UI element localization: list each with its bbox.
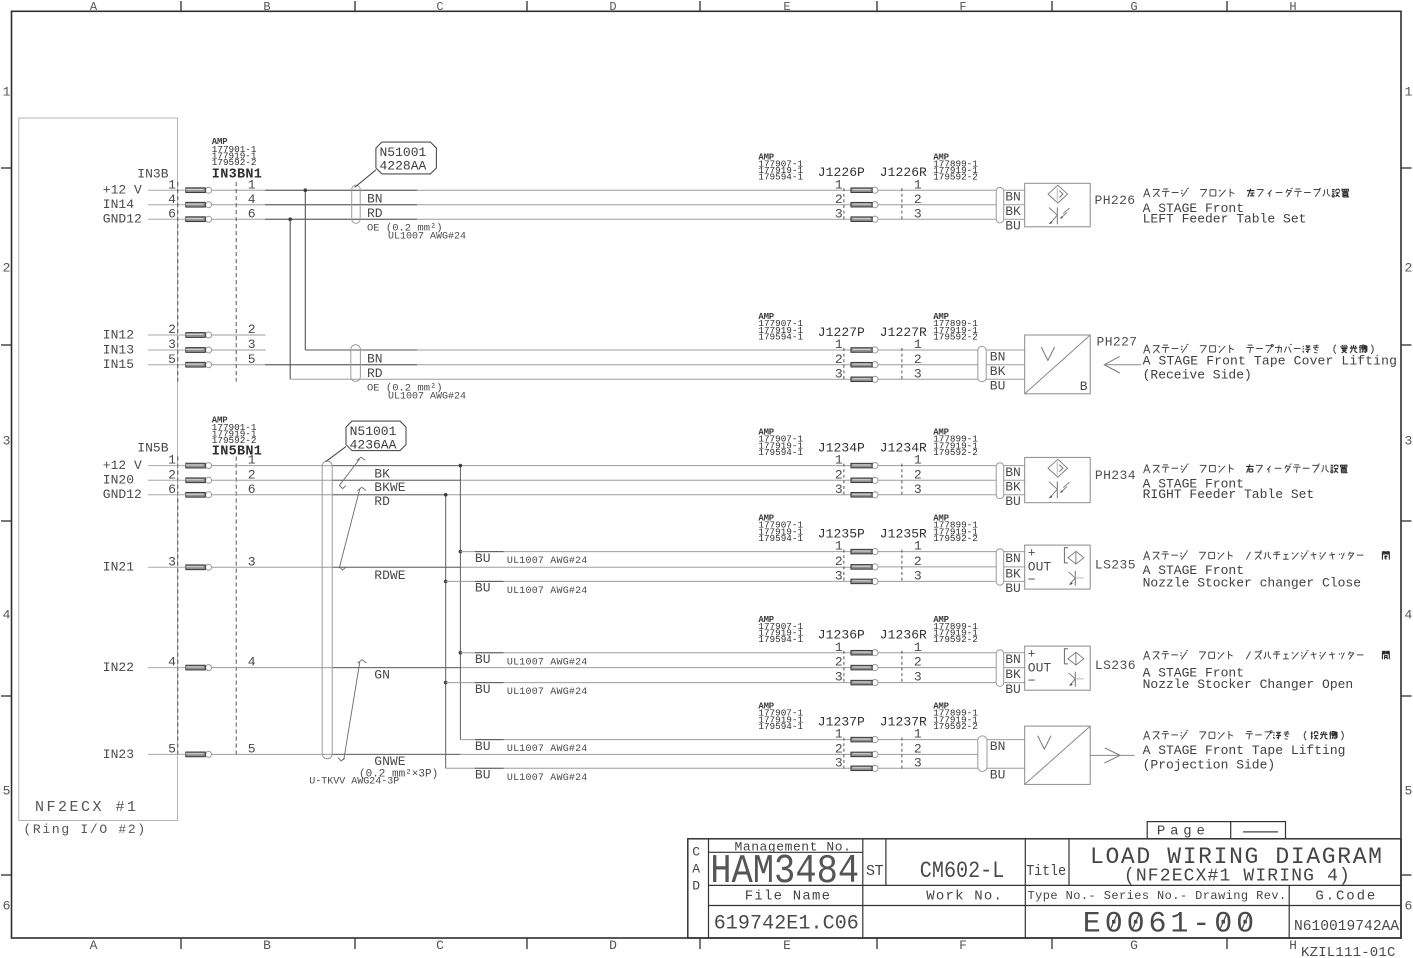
svg-text:6: 6 [1405, 899, 1413, 914]
svg-text:UL1007 AWG#24: UL1007 AWG#24 [507, 586, 588, 597]
svg-text:3: 3 [835, 755, 843, 770]
svg-text:1: 1 [168, 177, 176, 192]
svg-text:2: 2 [914, 742, 922, 757]
svg-text:3: 3 [835, 569, 843, 584]
svg-text:File Name: File Name [745, 888, 831, 904]
svg-text:2: 2 [835, 554, 843, 569]
svg-text:BK: BK [1005, 480, 1021, 495]
svg-text:LS235: LS235 [1095, 558, 1136, 573]
svg-text:179594-1: 179594-1 [758, 533, 803, 544]
svg-text:2: 2 [835, 352, 843, 367]
svg-text:5: 5 [3, 784, 11, 799]
svg-text:C: C [436, 938, 444, 953]
svg-text:NF2ECX #1: NF2ECX #1 [35, 799, 139, 816]
svg-text:IN21: IN21 [103, 560, 134, 575]
svg-text:1: 1 [835, 177, 843, 192]
svg-text:2: 2 [835, 192, 843, 207]
svg-text:RDWE: RDWE [374, 568, 405, 583]
svg-text:3: 3 [3, 434, 11, 449]
svg-text:UL1007 AWG#24: UL1007 AWG#24 [507, 556, 588, 567]
svg-text:179592-2: 179592-2 [933, 721, 978, 732]
svg-text:3: 3 [248, 554, 256, 569]
svg-text:A: A [692, 861, 700, 876]
svg-text:GNWE: GNWE [374, 754, 405, 769]
svg-text:BU: BU [475, 551, 491, 566]
svg-text:(Receive Side): (Receive Side) [1143, 368, 1252, 383]
svg-text:N610019742AA: N610019742AA [1294, 919, 1399, 935]
svg-text:4228AA: 4228AA [380, 158, 427, 173]
svg-text:IN15: IN15 [103, 357, 134, 372]
svg-text:BN: BN [990, 349, 1006, 364]
svg-text:3: 3 [914, 482, 922, 497]
svg-text:1: 1 [914, 337, 922, 352]
svg-text:F: F [959, 938, 967, 953]
svg-text:Title: Title [1026, 863, 1066, 880]
svg-text:IN5BN1: IN5BN1 [212, 445, 262, 460]
svg-text:179594-1: 179594-1 [758, 447, 803, 458]
svg-text:BN: BN [1005, 652, 1021, 667]
svg-text:BU: BU [475, 581, 491, 596]
svg-text:LEFT Feeder Table Set: LEFT Feeder Table Set [1143, 211, 1307, 226]
svg-text:3: 3 [914, 755, 922, 770]
svg-text:UL1007 AWG#24: UL1007 AWG#24 [507, 687, 588, 698]
svg-text:RD: RD [367, 366, 383, 381]
svg-text:KZIL111-01C: KZIL111-01C [1301, 945, 1396, 958]
svg-text:BU: BU [1005, 494, 1021, 509]
svg-text:179592-2: 179592-2 [212, 157, 257, 168]
svg-text:BU: BU [1005, 682, 1021, 697]
svg-text:6: 6 [248, 206, 256, 221]
svg-text:E: E [783, 938, 791, 953]
svg-text:179594-1: 179594-1 [758, 634, 803, 645]
svg-text:BU: BU [990, 768, 1006, 783]
svg-text:PH234: PH234 [1095, 468, 1136, 483]
svg-text:2: 2 [835, 742, 843, 757]
svg-text:BU: BU [1005, 581, 1021, 596]
svg-text:GND12: GND12 [103, 487, 142, 502]
svg-text:IN14: IN14 [103, 197, 134, 212]
svg-text:1: 1 [914, 453, 922, 468]
svg-text:3: 3 [1405, 434, 1413, 449]
svg-text:3: 3 [835, 206, 843, 221]
svg-text:BK: BK [1005, 667, 1021, 682]
svg-text:F: F [959, 0, 966, 14]
svg-text:3: 3 [914, 670, 922, 685]
svg-text:BU: BU [475, 652, 491, 667]
svg-text:619742E1.C06: 619742E1.C06 [714, 913, 859, 936]
svg-text:2: 2 [914, 554, 922, 569]
svg-text:4: 4 [248, 655, 256, 670]
svg-text:−: − [1028, 674, 1036, 689]
svg-text:D: D [609, 0, 616, 14]
svg-text:179592-2: 179592-2 [933, 332, 978, 343]
svg-text:C: C [692, 844, 700, 859]
svg-text:−: − [1028, 573, 1036, 588]
svg-text:2: 2 [248, 467, 256, 482]
svg-text:BU: BU [475, 682, 491, 697]
svg-text:BK: BK [374, 466, 390, 481]
svg-text:+: + [1028, 545, 1036, 560]
svg-text:3: 3 [168, 337, 176, 352]
svg-text:Type No.- Series No.- Drawing: Type No.- Series No.- Drawing Rev. [1028, 889, 1287, 903]
svg-text:1: 1 [3, 85, 11, 100]
svg-text:179594-1: 179594-1 [758, 721, 803, 732]
svg-text:1: 1 [1405, 85, 1413, 100]
svg-text:5: 5 [168, 352, 176, 367]
svg-text:4: 4 [168, 192, 176, 207]
svg-text:B: B [263, 0, 270, 14]
svg-text:3: 3 [914, 569, 922, 584]
svg-text:3: 3 [914, 206, 922, 221]
svg-text:IN3B: IN3B [137, 167, 168, 182]
svg-text:Nozzle Stocker changer Close: Nozzle Stocker changer Close [1143, 575, 1361, 590]
svg-text:179592-2: 179592-2 [933, 172, 978, 183]
svg-text:5: 5 [168, 742, 176, 757]
svg-text:Page: Page [1157, 824, 1210, 840]
svg-text:RD: RD [374, 494, 390, 509]
svg-text:(Ring I/O #2): (Ring I/O #2) [23, 822, 147, 837]
svg-text:6: 6 [3, 899, 11, 914]
svg-text:BU: BU [475, 768, 491, 783]
svg-text:BN: BN [367, 192, 383, 207]
svg-text:1: 1 [835, 539, 843, 554]
svg-text:BN: BN [367, 351, 383, 366]
svg-text:A STAGE Front Tape Lifting: A STAGE Front Tape Lifting [1143, 743, 1346, 758]
svg-text:BN: BN [990, 739, 1006, 754]
svg-text:1: 1 [914, 640, 922, 655]
svg-text:3: 3 [835, 482, 843, 497]
svg-text:(Projection Side): (Projection Side) [1143, 758, 1276, 773]
svg-text:4: 4 [1405, 608, 1413, 623]
svg-text:PH227: PH227 [1097, 334, 1138, 349]
svg-text:LS236: LS236 [1095, 658, 1136, 673]
svg-text:UL1007 AWG#24: UL1007 AWG#24 [507, 773, 588, 784]
svg-text:1: 1 [835, 640, 843, 655]
svg-text:5: 5 [1405, 784, 1413, 799]
svg-text:2: 2 [835, 655, 843, 670]
svg-text:Work No.: Work No. [926, 888, 1003, 904]
svg-text:IN12: IN12 [103, 327, 134, 342]
svg-text:RIGHT Feeder Table Set: RIGHT Feeder Table Set [1143, 487, 1315, 502]
svg-text:(NF2ECX#1 WIRING 4): (NF2ECX#1 WIRING 4) [1124, 867, 1351, 887]
svg-text:H: H [1289, 938, 1297, 953]
svg-text:B: B [263, 938, 271, 953]
svg-text:3: 3 [835, 670, 843, 685]
svg-text:ST: ST [866, 863, 884, 880]
svg-text:C: C [436, 0, 443, 14]
svg-text:UL1007 AWG#24: UL1007 AWG#24 [507, 657, 588, 668]
svg-text:UL1007 AWG#24: UL1007 AWG#24 [388, 231, 466, 242]
svg-text:IN3BN1: IN3BN1 [212, 168, 262, 183]
svg-text:G.Code: G.Code [1315, 888, 1377, 904]
svg-text:3: 3 [835, 366, 843, 381]
svg-text:4: 4 [3, 608, 11, 623]
svg-text:IN20: IN20 [103, 473, 134, 488]
svg-text:1: 1 [914, 177, 922, 192]
svg-text:5: 5 [248, 742, 256, 757]
svg-text:1: 1 [168, 453, 176, 468]
svg-text:179592-2: 179592-2 [933, 447, 978, 458]
svg-text:BU: BU [990, 379, 1006, 394]
svg-text:UL1007 AWG#24: UL1007 AWG#24 [388, 391, 466, 402]
svg-text:E0061-00: E0061-00 [1083, 908, 1258, 942]
svg-text:6: 6 [168, 482, 176, 497]
svg-text:E: E [783, 0, 790, 14]
svg-text:U-TKVV AWG24-3P: U-TKVV AWG24-3P [309, 777, 399, 788]
svg-text:A: A [90, 0, 98, 14]
svg-text:IN22: IN22 [103, 660, 134, 675]
svg-text:179594-1: 179594-1 [758, 332, 803, 343]
svg-text:3: 3 [914, 366, 922, 381]
svg-text:4236AA: 4236AA [350, 437, 397, 452]
svg-text:6: 6 [168, 206, 176, 221]
svg-text:UL1007 AWG#24: UL1007 AWG#24 [507, 744, 588, 755]
svg-text:2: 2 [914, 352, 922, 367]
svg-text:179592-2: 179592-2 [933, 533, 978, 544]
svg-text:BK: BK [990, 364, 1006, 379]
svg-text:2: 2 [3, 261, 11, 276]
svg-text:4: 4 [248, 192, 256, 207]
svg-text:BU: BU [475, 739, 491, 754]
svg-text:BN: BN [1005, 551, 1021, 566]
svg-text:1: 1 [835, 337, 843, 352]
svg-text:GN: GN [374, 668, 390, 683]
svg-text:4: 4 [168, 655, 176, 670]
svg-text:2: 2 [168, 322, 176, 337]
svg-text:+12 V: +12 V [103, 458, 142, 473]
svg-text:2: 2 [914, 192, 922, 207]
svg-text:A: A [90, 938, 98, 953]
svg-text:1: 1 [835, 453, 843, 468]
svg-text:1: 1 [835, 727, 843, 742]
svg-text:6: 6 [248, 482, 256, 497]
svg-text:+12 V: +12 V [103, 183, 142, 198]
svg-text:2: 2 [1405, 261, 1413, 276]
svg-text:2: 2 [914, 655, 922, 670]
svg-text:Nozzle Stocker Changer Open: Nozzle Stocker Changer Open [1143, 677, 1354, 692]
svg-text:IN5B: IN5B [137, 441, 168, 456]
svg-text:1: 1 [914, 539, 922, 554]
svg-text:H: H [1289, 0, 1296, 14]
svg-text:+: + [1028, 646, 1036, 661]
svg-text:2: 2 [835, 467, 843, 482]
svg-text:2: 2 [168, 467, 176, 482]
svg-text:IN23: IN23 [103, 747, 134, 762]
svg-text:D: D [609, 938, 617, 953]
svg-text:179592-2: 179592-2 [933, 634, 978, 645]
svg-text:1: 1 [914, 727, 922, 742]
svg-text:3: 3 [168, 554, 176, 569]
svg-text:2: 2 [914, 467, 922, 482]
svg-text:BN: BN [1005, 190, 1021, 205]
svg-text:D: D [692, 878, 700, 893]
svg-text:IN13: IN13 [103, 342, 134, 357]
svg-text:A STAGE Front Tape Cover Lifti: A STAGE Front Tape Cover Lifting [1143, 354, 1397, 369]
svg-text:CM602-L: CM602-L [920, 858, 1005, 884]
svg-text:GND12: GND12 [103, 212, 142, 227]
svg-text:BN: BN [1005, 465, 1021, 480]
svg-text:RD: RD [367, 206, 383, 221]
svg-text:PH226: PH226 [1095, 193, 1136, 208]
svg-text:G: G [1130, 0, 1137, 14]
svg-text:BK: BK [1005, 204, 1021, 219]
svg-text:BK: BK [1005, 566, 1021, 581]
svg-text:BU: BU [1005, 219, 1021, 234]
svg-text:179594-1: 179594-1 [758, 172, 803, 183]
svg-text:B: B [1080, 379, 1088, 394]
